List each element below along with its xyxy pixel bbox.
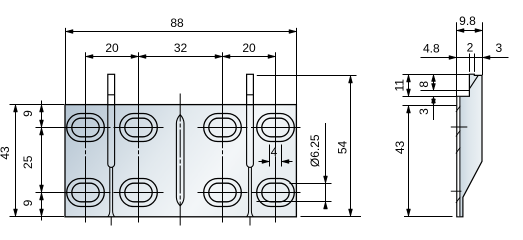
dim arrows at C2 bbox=[131, 55, 139, 59]
hole A4 outer emboss bbox=[257, 114, 295, 142]
dimension 3 line (side) bbox=[433, 97, 435, 121]
dim 9 top arrows bbox=[40, 105, 44, 113]
svg-text:3: 3 bbox=[496, 41, 503, 55]
dimension diameter 6.25 arrows (outside) bbox=[324, 176, 328, 184]
dimension 9.8 line bbox=[457, 30, 483, 32]
dimension 88 arrow right bbox=[289, 30, 297, 34]
row1 centerline hole A3 bbox=[198, 127, 248, 129]
dimension 4 extension lines bbox=[269, 145, 271, 167]
dimension 43 line (front) bbox=[15, 105, 17, 217]
row1 centerline left segment through hole A1 bbox=[36, 127, 111, 129]
svg-text:9: 9 bbox=[21, 199, 35, 206]
hole B4 inner slot bbox=[262, 183, 289, 202]
plate bottom edge extension to left dims bbox=[10, 216, 65, 218]
dimension 88 extension left bbox=[65, 28, 67, 105]
dim arrows at C3 bbox=[215, 55, 223, 59]
dim 9 bottom arrows bbox=[40, 193, 44, 201]
dimension 8 line bbox=[433, 75, 435, 91]
slit S2 wide part with round bottom bbox=[247, 105, 254, 168]
hole A1 inner slot bbox=[72, 118, 99, 137]
slit S2 centerline stub below plate bbox=[249, 217, 251, 226]
column centerline C4 bbox=[275, 52, 277, 222]
dimension 20/32/20 line bbox=[86, 56, 276, 58]
hole A4 inner slot bbox=[262, 118, 289, 137]
svg-text:9: 9 bbox=[21, 110, 35, 117]
crease extension line (8 bottom) bbox=[421, 90, 470, 92]
hole A2 outer emboss bbox=[120, 114, 158, 142]
side view row2 centerline tick bbox=[451, 190, 462, 192]
center slot centerline bbox=[179, 94, 181, 226]
side view row1 centerline tick bbox=[451, 126, 468, 128]
svg-text:11: 11 bbox=[393, 79, 407, 92]
dim 20 arrow at C1 bbox=[86, 55, 94, 59]
hole A3 inner slot bbox=[209, 118, 236, 137]
hole B4 outer emboss bbox=[257, 179, 295, 207]
row2 centerline hole B2 bbox=[114, 192, 164, 194]
hole B1 inner slot bbox=[72, 183, 99, 202]
dimension diameter 6.25 extension bottom bbox=[257, 201, 332, 203]
dimension 4 arrows (outside) bbox=[262, 160, 270, 164]
dimension 54 arrows bbox=[349, 76, 353, 84]
side view bend crease diagonal bbox=[469, 75, 478, 88]
dimension 54 extension top bbox=[257, 75, 357, 77]
svg-text:2: 2 bbox=[467, 41, 474, 55]
dimension 9.8 arrows bbox=[457, 29, 465, 33]
dim 20 arrow at C4 bbox=[268, 55, 276, 59]
svg-text:3: 3 bbox=[417, 108, 431, 115]
dimension 4 line segments bbox=[259, 161, 270, 163]
step extension line (11 bottom) bbox=[403, 96, 457, 98]
side view outline bbox=[457, 74, 482, 217]
side view section hatch ticks bbox=[456, 106, 460, 203]
tab thickness extension lines (2) bbox=[469, 54, 471, 72]
tab T2 bend line bbox=[247, 94, 254, 96]
side bottom extension line (43 bottom) bbox=[404, 216, 453, 218]
side view sheet inner face line bbox=[459, 97, 461, 216]
row1 centerline hole A2 bbox=[114, 127, 164, 129]
svg-text:32: 32 bbox=[174, 41, 188, 55]
svg-text:Ø6.25: Ø6.25 bbox=[308, 134, 322, 167]
plate top edge extension to left dims bbox=[10, 104, 65, 106]
dimension 8 arrows bbox=[432, 75, 436, 82]
svg-text:20: 20 bbox=[105, 41, 119, 55]
svg-text:88: 88 bbox=[170, 16, 184, 30]
tab T1 bend line bbox=[108, 94, 115, 96]
svg-text:25: 25 bbox=[21, 155, 35, 169]
dimension 54 extension bottom bbox=[301, 216, 362, 218]
dimension 4.8/2/3 chain line bbox=[421, 57, 509, 59]
dimension diameter 6.25 extension top bbox=[290, 183, 332, 185]
hole A1 outer emboss bbox=[67, 114, 105, 142]
svg-text:9.8: 9.8 bbox=[459, 14, 476, 28]
hole B3 outer emboss bbox=[204, 179, 242, 207]
svg-text:4.8: 4.8 bbox=[423, 42, 440, 56]
row2 centerline hole B4 bbox=[251, 192, 301, 194]
hole A3 outer emboss bbox=[204, 114, 242, 142]
dimension 11 arrows bbox=[407, 75, 411, 83]
hole B2 inner slot bbox=[125, 183, 152, 202]
plate front view body bbox=[65, 105, 296, 217]
column centerline C3 bbox=[222, 52, 224, 222]
slit S1 wide part with round bottom bbox=[108, 105, 115, 168]
hole B1 outer emboss bbox=[67, 179, 105, 207]
svg-text:54: 54 bbox=[336, 141, 350, 155]
row2 centerline left segment through hole B1 bbox=[36, 192, 111, 194]
dimension 88 arrow left bbox=[66, 30, 74, 34]
chain arrows bbox=[449, 56, 457, 60]
dimension 43 arrows (front) bbox=[14, 105, 18, 113]
tab T1 (top break-off tab) bbox=[108, 74, 115, 104]
svg-text:43: 43 bbox=[0, 146, 12, 160]
hole B3 inner slot bbox=[209, 183, 236, 202]
row2 centerline hole B3 bbox=[198, 192, 248, 194]
slit S1 narrow part with bottom flare bbox=[108, 167, 115, 217]
side view sheet section white band bbox=[457, 97, 459, 216]
slit S1 centerline stub below plate bbox=[110, 217, 112, 226]
dimension 54 line bbox=[350, 76, 352, 217]
hole A2 inner slot bbox=[125, 118, 152, 137]
dimension 9/25/9 line bbox=[41, 101, 43, 221]
dimension diameter 6.25 line bbox=[325, 123, 327, 209]
svg-text:20: 20 bbox=[242, 41, 256, 55]
dimension 3 arrows (side) bbox=[432, 97, 436, 104]
svg-text:43: 43 bbox=[393, 141, 407, 155]
dimension 43 line (side) bbox=[408, 106, 410, 217]
slit S2 narrow part with bottom flare bbox=[247, 167, 254, 217]
svg-text:4: 4 bbox=[271, 145, 278, 159]
dimension 88 extension right bbox=[296, 28, 298, 105]
dimension 9.8 extension left bbox=[456, 22, 458, 96]
svg-text:8: 8 bbox=[417, 81, 431, 88]
column centerline C2 bbox=[138, 52, 140, 222]
row1 centerline hole A4 bbox=[251, 127, 301, 129]
dim 25 arrows bbox=[40, 128, 44, 136]
dimension 43 arrows (side) bbox=[407, 106, 411, 114]
dimension 9.8 extension right bbox=[482, 22, 484, 75]
dimension 11 line bbox=[408, 75, 410, 97]
dimension 88 line bbox=[66, 31, 297, 33]
column centerline C1 bbox=[85, 52, 87, 222]
plate top extension line (3 bottom / 43 top) bbox=[403, 105, 457, 107]
hole B2 outer emboss bbox=[120, 179, 158, 207]
center slot (pointed oval) bbox=[176, 115, 184, 206]
tab top extension line (11/8 top) bbox=[403, 74, 469, 76]
tab T2 (top break-off tab) bbox=[247, 74, 254, 104]
